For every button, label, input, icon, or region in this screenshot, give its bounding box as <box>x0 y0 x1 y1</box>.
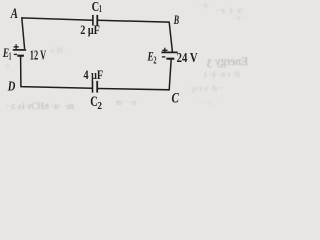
svg-text:m· ·u· ʦHƆv ɨʌ ɔ ·: m· ·u· ʦHƆv ɨʌ ɔ · <box>6 101 74 111</box>
battery E2 plus sign <box>162 48 167 53</box>
svg-text:1: 1 <box>99 4 102 15</box>
battery E2 minus sign <box>162 56 166 58</box>
svg-text:2: 2 <box>153 55 156 66</box>
svg-text:2 μF: 2 μF <box>80 22 100 37</box>
svg-text:Energy ʒ: Energy ʒ <box>207 56 248 68</box>
svg-text:·N·i·: ·N·i· <box>49 45 66 55</box>
svg-text:2: 2 <box>97 101 102 112</box>
battery E1 minus sign <box>14 53 17 55</box>
battery E2 plates <box>161 52 177 58</box>
paper grain <box>0 0 1 1</box>
background paper <box>0 0 265 114</box>
svg-text:A: A <box>10 6 18 22</box>
svg-text:C: C <box>172 90 180 106</box>
svg-text:24 V: 24 V <box>177 51 198 66</box>
wire E2 bottom to C to C2 (bottom-right polyline through node C corner) <box>98 59 172 90</box>
svg-text:n·· ·œ: n·· ·œ <box>115 97 136 107</box>
capacitor C1 label <box>92 0 102 15</box>
wire C1 to B to E2 top (top-right polyline through node B corner) <box>98 20 173 51</box>
battery E1 label <box>2 45 11 62</box>
svg-text:il· i·n ·k· t: il· i·n ·k· t <box>204 69 240 79</box>
battery E1 plates <box>13 50 26 56</box>
capacitor C1 plates <box>93 15 97 26</box>
svg-text:B: B <box>173 12 179 27</box>
wire C2 to D to E1 bottom (bottom-left polyline through node D corner) <box>21 56 93 88</box>
svg-text:ɛ·: ɛ· <box>3 61 9 70</box>
svg-text:· ·i ·· ·: · ·i ·· · <box>196 98 218 107</box>
svg-text:··d· s·i·q ·: ··d· s·i·q · <box>187 83 222 93</box>
svg-text:12 V: 12 V <box>30 49 46 64</box>
battery E1 plus sign <box>14 44 19 49</box>
svg-text:D: D <box>7 79 15 94</box>
svg-text:·ё··: ·ё·· <box>198 1 210 10</box>
capacitor C2 plates <box>93 81 98 93</box>
svg-text:1: 1 <box>9 51 12 62</box>
wire A to E1 top and A to C1 (top-left polyline through node A corner) <box>22 18 93 49</box>
bleed-through text (back of page, mirrored) <box>3 1 248 111</box>
capacitor C2 label <box>90 94 102 112</box>
svg-text:·· e·: ·· e· <box>235 13 248 22</box>
svg-text:4 μF: 4 μF <box>84 67 104 82</box>
battery E2 label <box>147 48 157 66</box>
